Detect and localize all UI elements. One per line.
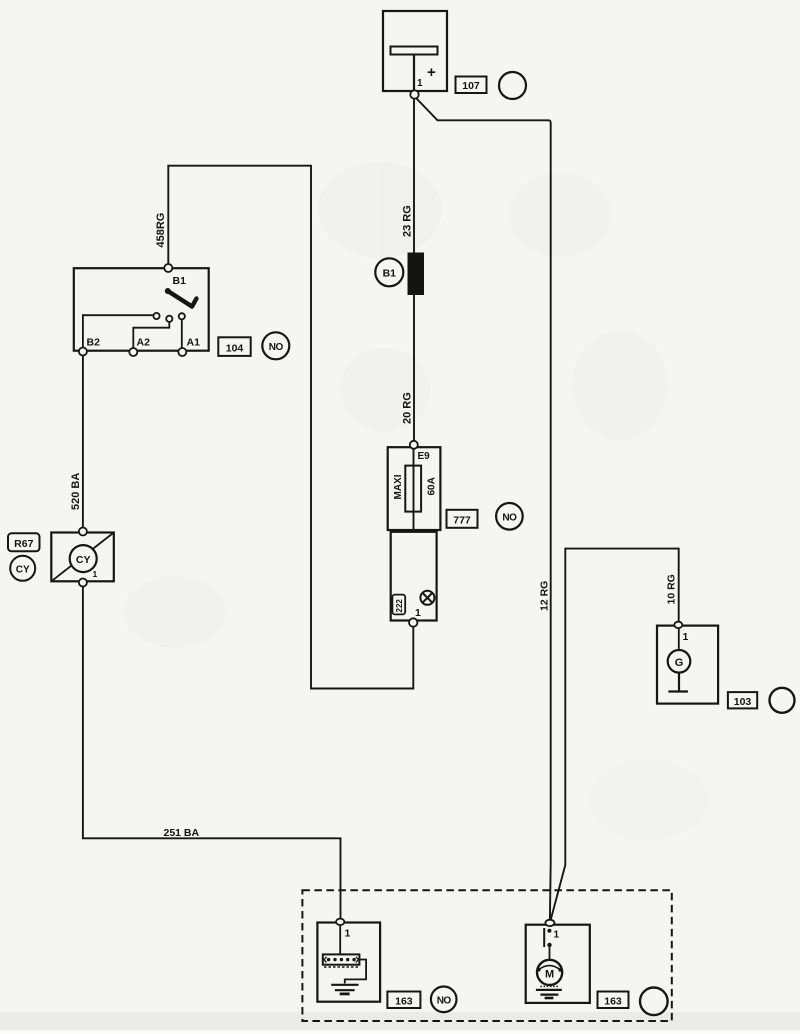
svg-text:60A: 60A <box>427 477 438 495</box>
relay contact points <box>153 313 185 322</box>
CY circle symbol <box>70 545 97 572</box>
fuse unit top pin <box>410 441 418 449</box>
svg-text:MAXI: MAXI <box>393 474 404 499</box>
svg-text:R67: R67 <box>14 538 33 550</box>
ground unit top pin <box>336 919 344 925</box>
motor junction dot lower <box>547 943 551 947</box>
svg-text:A1: A1 <box>187 337 201 349</box>
motor internal wire <box>549 947 551 960</box>
svg-text:A2: A2 <box>137 337 151 349</box>
alternator top pin <box>674 622 682 628</box>
svg-text:B2: B2 <box>87 337 101 349</box>
fuse unit bottom pin <box>409 618 417 626</box>
relay 104 box <box>74 268 209 351</box>
note circle NO near 777 <box>496 503 523 530</box>
svg-text:1: 1 <box>93 569 98 579</box>
wire 10RG alternator to motor junction <box>551 549 679 921</box>
motor M circle <box>537 960 562 985</box>
svg-text:NO: NO <box>502 513 517 524</box>
lamp symbol <box>420 591 434 605</box>
CY top pin <box>79 528 87 536</box>
harness dashed box <box>302 890 671 1021</box>
svg-text:222: 222 <box>395 599 404 613</box>
svg-text:CY: CY <box>16 565 30 576</box>
connector strip <box>323 954 360 967</box>
battery pin 1 <box>410 90 418 98</box>
wire 520BA relay B2 to CY <box>82 356 84 530</box>
relay internal wire A1 <box>181 320 183 351</box>
wire 20RG splice to fuse <box>413 295 415 442</box>
svg-text:10 RG: 10 RG <box>666 574 678 604</box>
label box 103 <box>728 692 757 708</box>
svg-text:12 RG: 12 RG <box>539 581 551 611</box>
svg-text:1: 1 <box>554 930 560 941</box>
svg-text:777: 777 <box>453 515 471 527</box>
alternator G circle <box>668 650 691 673</box>
label box 104 <box>218 337 250 356</box>
motor ground <box>536 986 562 998</box>
svg-text:CY: CY <box>76 554 91 566</box>
note circle NO bottom <box>431 987 457 1013</box>
svg-text:B1: B1 <box>173 275 187 287</box>
svg-text:1: 1 <box>417 78 423 89</box>
wire 251BA CY to ground component <box>83 586 341 920</box>
motor connector bar <box>543 928 545 947</box>
splice B1 <box>408 253 425 296</box>
wire 12RG battery to motor <box>417 99 551 920</box>
svg-text:1: 1 <box>415 607 421 619</box>
svg-text:23 RG: 23 RG <box>402 205 414 237</box>
motor unit 163 box <box>526 925 590 1003</box>
connector tag 222 <box>392 595 405 615</box>
svg-text:G: G <box>675 657 684 669</box>
ground unit internal wire <box>339 925 341 955</box>
fuse unit 777 lower box <box>391 532 437 621</box>
internal wire to ground <box>345 960 366 984</box>
svg-text:163: 163 <box>395 995 413 1007</box>
label box 163 right <box>598 992 629 1009</box>
svg-text:NO: NO <box>269 342 284 353</box>
svg-text:1: 1 <box>683 631 689 643</box>
node label circle B1 <box>375 258 403 286</box>
CY bottom pin <box>79 579 87 587</box>
circle marker near 107 <box>499 72 526 99</box>
relay internal wire A2 <box>133 322 169 350</box>
svg-text:M: M <box>545 969 554 981</box>
alternator internal wire <box>678 628 680 650</box>
note circle NO near 104 <box>262 332 289 359</box>
svg-text:163: 163 <box>604 995 622 1007</box>
relay top pin <box>164 264 172 272</box>
svg-text:107: 107 <box>462 80 480 92</box>
diode unit CY box <box>51 533 114 582</box>
fuse unit 777 upper box <box>388 447 441 530</box>
ground unit 163 box <box>317 923 380 1002</box>
fuse element E9 <box>405 466 421 512</box>
svg-text:103: 103 <box>734 696 752 708</box>
marker circle CY <box>10 556 35 581</box>
svg-text:NO: NO <box>437 996 452 1007</box>
svg-text:1: 1 <box>345 928 351 940</box>
alternator G box 103 <box>657 626 718 704</box>
wire 23RG battery to splice <box>413 99 415 254</box>
svg-text:E9: E9 <box>418 451 431 462</box>
relay switch arm <box>168 291 197 307</box>
relay internal wire B2 <box>83 315 153 350</box>
marker circle bottom right <box>640 988 668 1016</box>
svg-text:458RG: 458RG <box>155 213 167 248</box>
alternator ground <box>668 673 688 692</box>
svg-text:251 BA: 251 BA <box>164 827 200 839</box>
svg-text:20 RG: 20 RG <box>402 392 414 424</box>
battery 107 <box>383 11 447 91</box>
ground symbol left unit <box>331 985 358 994</box>
svg-text:520 BA: 520 BA <box>70 473 82 510</box>
wire 458RG fuse pin1 to relay B1 <box>168 166 413 689</box>
label box 777 <box>447 510 478 528</box>
label box 163 left <box>387 992 420 1009</box>
relay bottom pins <box>79 348 186 357</box>
label box R67 <box>8 533 40 551</box>
svg-text:104: 104 <box>226 343 244 355</box>
motor top pin <box>545 920 554 926</box>
marker circle near 103 <box>770 688 795 713</box>
motor junction dot upper <box>547 929 551 933</box>
label box 107 <box>456 77 487 94</box>
svg-text:B1: B1 <box>383 268 397 280</box>
svg-text:+: + <box>427 64 436 81</box>
